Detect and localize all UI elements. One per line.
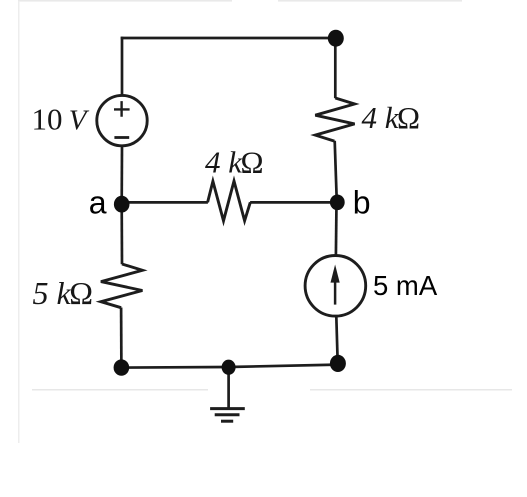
wire right vertical (top dot to right resistor) [334,37,337,98]
resistor 4k right zigzag [315,98,354,141]
svg-text:4 kΩ: 4 kΩ [362,100,421,135]
resistor 5k left zigzag [101,264,142,308]
svg-text:b: b [353,185,371,221]
junction dot bottom left [114,359,130,375]
wire node b to current source [335,202,338,255]
resistor 4k middle zigzag [208,181,251,221]
wire 5k resistor to bottom left dot [120,308,123,368]
wire bottom rail [121,365,338,368]
ground bar 3 [221,420,233,423]
node b junction dot [330,195,345,211]
wire current source to bottom right dot [336,316,337,364]
junction dot bottom right [330,355,346,372]
svg-text:5 kΩ: 5 kΩ [33,275,93,311]
svg-text:4 kΩ: 4 kΩ [205,145,264,180]
wire middle resistor to node b [250,201,337,204]
current source arrow shaft [334,278,337,305]
scan artifact faint bottom smudge [32,389,208,391]
current source arrow head [331,265,340,283]
svg-text:10 V: 10 V [32,102,90,137]
ground stem [227,367,230,409]
node a junction dot [114,196,130,213]
voltage source V1 circle [97,95,147,145]
current source I1 circle [305,255,366,316]
ground bar 2 [215,413,240,416]
voltage source minus sign [114,136,129,139]
scan artifact faint left border [18,1,20,443]
wire right resistor to node b [335,141,337,203]
voltage source plus sign [114,101,130,117]
junction dot bottom center (ground node) [222,360,236,375]
junction dot top right [328,30,344,47]
scan artifact faint top border [18,0,232,2]
wire node a down to 5k resistor [120,204,123,264]
wire left vertical upper (top rail to voltage source) [121,37,124,96]
svg-text:a: a [89,185,107,221]
svg-text:5 mA: 5 mA [373,270,438,301]
wire node a to middle resistor [122,201,208,204]
ground bar 1 [210,407,245,410]
wire top horizontal [121,37,336,40]
wire voltage source bottom to node a [120,146,123,204]
